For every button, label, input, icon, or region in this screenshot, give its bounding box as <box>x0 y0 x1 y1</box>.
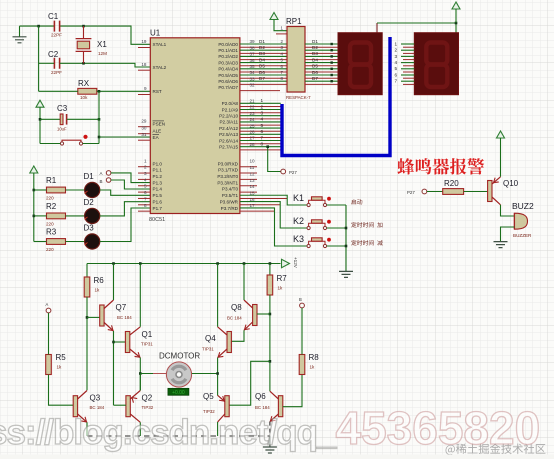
wire Q4 collector to rail <box>217 264 219 327</box>
svg-text:10k: 10k <box>80 95 88 100</box>
svg-text:P0.7/AD7: P0.7/AD7 <box>218 85 238 90</box>
7-seg display 2 body <box>414 33 458 95</box>
svg-text:2: 2 <box>261 104 264 109</box>
svg-text:P1.3: P1.3 <box>153 180 163 185</box>
svg-text:P2.1/A9: P2.1/A9 <box>222 107 239 112</box>
watermark juejin <box>446 443 546 455</box>
svg-text:Q7: Q7 <box>116 303 127 312</box>
capacitor C2 <box>48 50 62 75</box>
wire A to P1.3 <box>111 173 150 183</box>
svg-text:D1: D1 <box>312 39 318 44</box>
svg-text:K3: K3 <box>293 234 304 244</box>
wire net XTAL2 <box>39 62 151 67</box>
svg-text:R2: R2 <box>46 202 57 211</box>
wire C3 to RST node <box>67 118 100 121</box>
svg-text:D7: D7 <box>312 76 318 81</box>
svg-text:29: 29 <box>141 118 147 123</box>
svg-text:P27: P27 <box>289 170 297 175</box>
terminal P27 (buzzer) <box>407 189 427 195</box>
svg-text:10uF: 10uF <box>57 127 67 132</box>
wire net RST <box>39 90 151 93</box>
wire motor left <box>140 373 166 375</box>
svg-text:P0.6/AD6: P0.6/AD6 <box>218 79 238 84</box>
transistor Q1 TIP31 <box>125 327 153 360</box>
svg-text:P3.0/RXD: P3.0/RXD <box>218 161 239 166</box>
resistor R6 1k <box>84 264 104 298</box>
wire Q7 emitter to Q1/Q2 bases <box>112 331 125 405</box>
resistor pack RP1 RESPACK-7 <box>286 17 311 100</box>
svg-text:14: 14 <box>250 184 256 189</box>
svg-text:D3: D3 <box>84 224 95 233</box>
svg-text:Q8: Q8 <box>231 303 242 312</box>
svg-text:1: 1 <box>261 98 264 103</box>
wire switch ground rail <box>345 205 348 271</box>
wire R5 to Q3 base <box>49 375 74 406</box>
LED D3 <box>84 224 100 250</box>
wire Q6 emitter to gnd (dashed) <box>269 422 271 436</box>
wire Q8 collector to rail <box>243 264 245 301</box>
wire K1 to ground rail <box>327 204 346 206</box>
svg-text:P0.4/AD4: P0.4/AD4 <box>218 67 238 72</box>
svg-text:P3.6/WR: P3.6/WR <box>220 199 239 204</box>
power +5V (LED rail) <box>30 166 38 242</box>
svg-text:PSEN: PSEN <box>153 121 166 126</box>
terminal A <box>100 171 111 176</box>
wire D3 to U1 P1 <box>100 208 151 242</box>
svg-text:7: 7 <box>261 135 264 140</box>
svg-text:TIP31: TIP31 <box>141 342 153 347</box>
svg-text:1k: 1k <box>278 286 284 291</box>
svg-text:6: 6 <box>261 129 264 134</box>
svg-text:P0.1/AD1: P0.1/AD1 <box>218 48 238 53</box>
transistor Q10 <box>488 177 519 205</box>
wire Q7 collector to rail <box>113 264 115 301</box>
svg-text:X1: X1 <box>97 40 107 49</box>
bottom margin band <box>0 455 554 459</box>
svg-text:U1: U1 <box>150 29 161 38</box>
svg-text:13: 13 <box>250 178 256 183</box>
wire Q10 emitter to buzzer <box>501 205 515 216</box>
reset button <box>60 135 87 145</box>
label 蜂鸣器报警 <box>397 158 484 175</box>
svg-text:P2.5/A13: P2.5/A13 <box>219 132 238 137</box>
wire Q6 base to R8 <box>283 375 302 407</box>
svg-text:D6: D6 <box>312 70 318 75</box>
svg-text:P0.5/AD5: P0.5/AD5 <box>218 73 238 78</box>
U1 left pin stubs, numbers, names <box>138 39 167 211</box>
wire D1 to U1 P1 <box>100 190 151 195</box>
svg-text:BC 184: BC 184 <box>117 315 132 320</box>
svg-text:TIP31: TIP31 <box>202 347 214 352</box>
svg-text:P1.0: P1.0 <box>153 161 163 166</box>
svg-text:D2: D2 <box>84 198 95 207</box>
wires U1 P0 to RP1 with net labels D1-D7 <box>240 39 287 81</box>
svg-text:2: 2 <box>394 48 397 53</box>
svg-text:B: B <box>299 297 302 302</box>
terminal B <box>100 178 111 184</box>
ground (top-left) <box>13 26 27 43</box>
ground (switches) <box>339 271 353 277</box>
microcontroller U1 80C51 body <box>149 29 240 224</box>
svg-text:P1.7: P1.7 <box>153 206 163 211</box>
svg-text:5: 5 <box>394 66 397 71</box>
svg-text:P2.2/A10: P2.2/A10 <box>219 114 238 119</box>
svg-text:D6: D6 <box>259 70 265 75</box>
svg-text:P1.6: P1.6 <box>153 199 163 204</box>
wire B to R8 <box>301 308 303 355</box>
transistor Q6 BC184 <box>255 391 283 423</box>
resistor R5 1k <box>46 353 67 375</box>
wire K3 to ground rail <box>327 245 346 247</box>
svg-text:7: 7 <box>144 196 147 201</box>
svg-text:30: 30 <box>141 125 147 130</box>
svg-text:RST: RST <box>153 89 162 94</box>
svg-text:12: 12 <box>250 171 256 176</box>
watermark big text <box>0 401 540 455</box>
wires display2 pins with net labels 1-7 <box>394 41 414 84</box>
svg-text:3: 3 <box>394 54 397 59</box>
resistor R3 220 <box>46 228 66 253</box>
svg-text:Q6: Q6 <box>255 392 266 401</box>
wire +12V top rail <box>87 262 281 265</box>
svg-text:D3: D3 <box>312 51 318 56</box>
svg-text:22PF: 22PF <box>51 33 62 38</box>
svg-text:R20: R20 <box>444 179 459 188</box>
wire rail to R3 <box>34 241 47 243</box>
wire P2.7 to terminal P27 <box>266 145 280 171</box>
resistor R7 1k <box>267 264 287 296</box>
svg-text:4: 4 <box>394 60 397 65</box>
wire U1 P3 to K3 <box>240 208 307 246</box>
resistor R2 220 <box>46 202 66 227</box>
svg-text:10: 10 <box>250 159 256 164</box>
svg-text:3: 3 <box>144 171 147 176</box>
switch K1 <box>293 193 331 207</box>
wire U1 P3 to K2 <box>240 202 307 228</box>
svg-text:R8: R8 <box>309 353 320 362</box>
power +5V (displays) <box>452 2 460 23</box>
svg-text:5: 5 <box>261 123 264 128</box>
svg-text:BUZ2: BUZ2 <box>512 201 534 211</box>
label 定时时间 加 <box>351 222 382 227</box>
svg-text:C3: C3 <box>57 104 68 113</box>
svg-text:P2.0/A8: P2.0/A8 <box>222 101 239 106</box>
LED D1 <box>84 172 100 198</box>
svg-text:P2.4/A12: P2.4/A12 <box>219 126 238 131</box>
svg-text:D1: D1 <box>259 39 265 44</box>
svg-text:D1: D1 <box>84 172 95 181</box>
svg-text:4: 4 <box>144 177 147 182</box>
svg-text:12M: 12M <box>98 51 107 56</box>
wire Q5 collector to gnd rail <box>217 422 219 436</box>
wire display1 top pin <box>376 23 378 33</box>
wire K2 to ground rail <box>327 227 346 229</box>
power +5V (reset) <box>36 100 44 143</box>
transistor Q3 BC184 <box>73 391 105 424</box>
svg-text:P0.3/AD3: P0.3/AD3 <box>218 60 238 65</box>
svg-text:+12V: +12V <box>293 257 298 269</box>
switch K3 <box>293 234 331 248</box>
svg-text:11: 11 <box>250 165 255 170</box>
switch K2 <box>293 216 331 230</box>
wire buzzer to ground <box>501 227 515 241</box>
svg-text:80C51: 80C51 <box>149 217 165 223</box>
wire R6 to Q7 base / Q3 collector <box>86 297 100 390</box>
motor DCMOTOR <box>153 352 205 396</box>
LED D2 <box>84 198 100 224</box>
wire U1 P3 to K1 <box>240 195 307 205</box>
power +12V terminal <box>282 257 299 269</box>
svg-text:K2: K2 <box>293 216 304 226</box>
svg-text:1k: 1k <box>57 365 63 370</box>
svg-text:D5: D5 <box>259 64 265 69</box>
wire motor right <box>192 373 218 375</box>
svg-text:P1.2: P1.2 <box>153 174 163 179</box>
svg-text:+0.00: +0.00 <box>172 390 185 396</box>
svg-text:P0.0/AD0: P0.0/AD0 <box>218 42 238 47</box>
svg-text:P27: P27 <box>407 190 415 195</box>
resistor R1 220 <box>46 176 66 201</box>
svg-text:P2.7/A15: P2.7/A15 <box>219 145 238 150</box>
wire R20 to Q10 base <box>464 191 488 193</box>
svg-text:A: A <box>100 171 103 176</box>
svg-text:D3: D3 <box>259 51 265 56</box>
svg-text:ALE: ALE <box>153 128 162 133</box>
ground (buzzer) <box>494 242 508 248</box>
svg-text:P3.3/INT1: P3.3/INT1 <box>217 180 238 185</box>
svg-text:D4: D4 <box>259 57 265 62</box>
transistor Q8 BC184 <box>227 300 270 332</box>
svg-text:R1: R1 <box>46 176 57 185</box>
wire Q2 emitter up to motor node <box>139 374 141 391</box>
wire rail to R1 <box>34 189 47 191</box>
svg-text:D2: D2 <box>312 45 318 50</box>
svg-text:P3.4/T0: P3.4/T0 <box>222 187 239 192</box>
svg-text:B: B <box>100 179 103 184</box>
svg-text:P3.7/RD: P3.7/RD <box>221 206 239 211</box>
wire Q4 emitter to motor node <box>216 358 219 396</box>
svg-text:220: 220 <box>46 247 54 252</box>
wire D2 to U1 P1 <box>100 202 151 216</box>
wire A to R5 <box>48 313 50 355</box>
wire R3 to D3 <box>66 241 85 243</box>
power +5V (RP1 pin1) <box>270 13 287 34</box>
svg-text:19: 19 <box>141 39 147 44</box>
svg-text:6: 6 <box>394 72 397 77</box>
wire Q5 base chain <box>229 361 270 405</box>
crystal X1 <box>76 26 108 63</box>
svg-text:RX: RX <box>78 79 90 88</box>
wires U1 P2 with net labels 1-8 <box>240 98 281 147</box>
wire Q1 collector to rail <box>139 264 141 327</box>
svg-text:Q10: Q10 <box>503 179 519 188</box>
svg-text:7: 7 <box>394 79 397 84</box>
svg-text:K1: K1 <box>293 193 304 203</box>
resistor RX 10k <box>78 79 97 100</box>
resistor R8 1k <box>299 353 319 375</box>
svg-text:D5: D5 <box>312 64 318 69</box>
svg-text:C2: C2 <box>48 50 59 59</box>
svg-text:P3.5/T1: P3.5/T1 <box>222 193 239 198</box>
U1 right pin stubs, numbers, names <box>217 39 287 211</box>
svg-text:P2.3/A11: P2.3/A11 <box>219 120 238 125</box>
svg-text:Q4: Q4 <box>205 334 216 343</box>
wire P27 to R20 <box>427 191 443 193</box>
svg-text:4: 4 <box>261 117 264 122</box>
svg-text:2: 2 <box>144 165 147 170</box>
wire rail to R2 <box>34 215 47 217</box>
svg-text:18: 18 <box>141 62 147 67</box>
terminal A (motor input) <box>46 302 51 313</box>
wire B to P1.4 <box>111 180 150 189</box>
svg-text:Q5: Q5 <box>203 392 214 401</box>
svg-text:C1: C1 <box>48 12 59 21</box>
wire Q8 emitter to Q4 base <box>231 330 244 341</box>
wire Q1 emitter to motor left node <box>139 358 142 391</box>
wire net XTAL1 top <box>20 25 151 45</box>
label 启动 <box>351 199 362 204</box>
bus (blue) P2 to display2 <box>282 37 390 156</box>
transistor Q2 TIP32 <box>126 391 154 423</box>
wire R1 to D1 <box>66 189 85 191</box>
svg-text:31: 31 <box>141 132 147 137</box>
wire Q2 base <box>114 404 126 406</box>
svg-text:RESPACK-7: RESPACK-7 <box>286 95 311 100</box>
svg-text:6: 6 <box>144 190 147 195</box>
wire Q2 collector to gnd rail <box>139 422 141 436</box>
svg-text:5: 5 <box>144 184 147 189</box>
svg-text:P1.4: P1.4 <box>153 187 163 192</box>
svg-text:RP1: RP1 <box>286 17 302 26</box>
svg-text:P2.6/A14: P2.6/A14 <box>219 138 238 143</box>
svg-text:P0.2/AD2: P0.2/AD2 <box>218 54 238 59</box>
svg-text:8: 8 <box>261 142 264 147</box>
svg-text:220: 220 <box>46 221 54 226</box>
wire display tops to power <box>377 22 457 33</box>
svg-text:1: 1 <box>144 158 147 163</box>
wire net EA <box>99 136 150 138</box>
wire button left <box>40 143 60 145</box>
svg-text:EA: EA <box>153 135 160 140</box>
svg-text:1k: 1k <box>95 288 101 293</box>
label 定时时间 减 <box>351 240 383 245</box>
wire button right to EA node <box>83 91 101 143</box>
svg-text:R5: R5 <box>56 353 67 362</box>
svg-text:D2: D2 <box>259 45 265 50</box>
svg-text:9: 9 <box>144 86 147 91</box>
svg-text:BC 184: BC 184 <box>227 316 242 321</box>
terminal B (motor input) <box>299 297 304 308</box>
svg-text:220: 220 <box>46 196 54 201</box>
svg-text:D7: D7 <box>259 76 265 81</box>
wire Q3 emitter to gnd rail <box>86 422 88 436</box>
capacitor C3 10uF <box>40 104 68 132</box>
svg-text:BUZZER: BUZZER <box>513 233 532 238</box>
terminal P27 (left) <box>281 169 298 175</box>
wire ground rail (dashed) <box>87 435 270 437</box>
svg-text:A: A <box>46 302 49 307</box>
svg-text:XTAL1: XTAL1 <box>153 42 167 47</box>
svg-text:D4: D4 <box>312 57 318 62</box>
7-seg display 1 body <box>338 33 382 95</box>
svg-text:3: 3 <box>261 111 264 116</box>
transistor Q7 BC184 <box>100 300 133 333</box>
svg-text:DCMOTOR: DCMOTOR <box>159 352 200 361</box>
svg-text:R3: R3 <box>46 228 57 237</box>
svg-text:P3.2/INT0: P3.2/INT0 <box>217 174 238 179</box>
svg-text:8: 8 <box>144 203 147 208</box>
wire C1-C2-RX vertical <box>38 26 40 91</box>
transistor Q5 TIP32 <box>203 392 229 422</box>
wire R2 to D2 <box>66 215 85 217</box>
svg-text:P1.1: P1.1 <box>153 168 163 173</box>
svg-text:XTAL2: XTAL2 <box>153 65 167 70</box>
power +5V (buzzer) <box>497 131 505 177</box>
capacitor C1 <box>48 12 62 38</box>
wire R7 to Q8 base node <box>269 295 272 391</box>
svg-text:Q1: Q1 <box>142 330 153 339</box>
ground (H-bridge) <box>263 436 277 453</box>
svg-text:P1.5: P1.5 <box>153 193 163 198</box>
svg-text:R7: R7 <box>277 274 288 283</box>
svg-text:P3.1/TXD: P3.1/TXD <box>218 168 239 173</box>
svg-text:37: 37 <box>250 52 256 57</box>
resistor R20 <box>443 179 464 194</box>
svg-text:1k: 1k <box>310 365 316 370</box>
svg-text:R6: R6 <box>94 276 105 285</box>
svg-text:1: 1 <box>394 41 397 46</box>
transistor Q4 TIP31 <box>202 327 231 360</box>
wires RP1 to 7-seg display 1, labels D1-D7 <box>305 39 338 85</box>
svg-text:22PF: 22PF <box>51 70 62 75</box>
svg-text:32: 32 <box>250 83 256 88</box>
buzzer BUZ2 <box>512 201 534 238</box>
